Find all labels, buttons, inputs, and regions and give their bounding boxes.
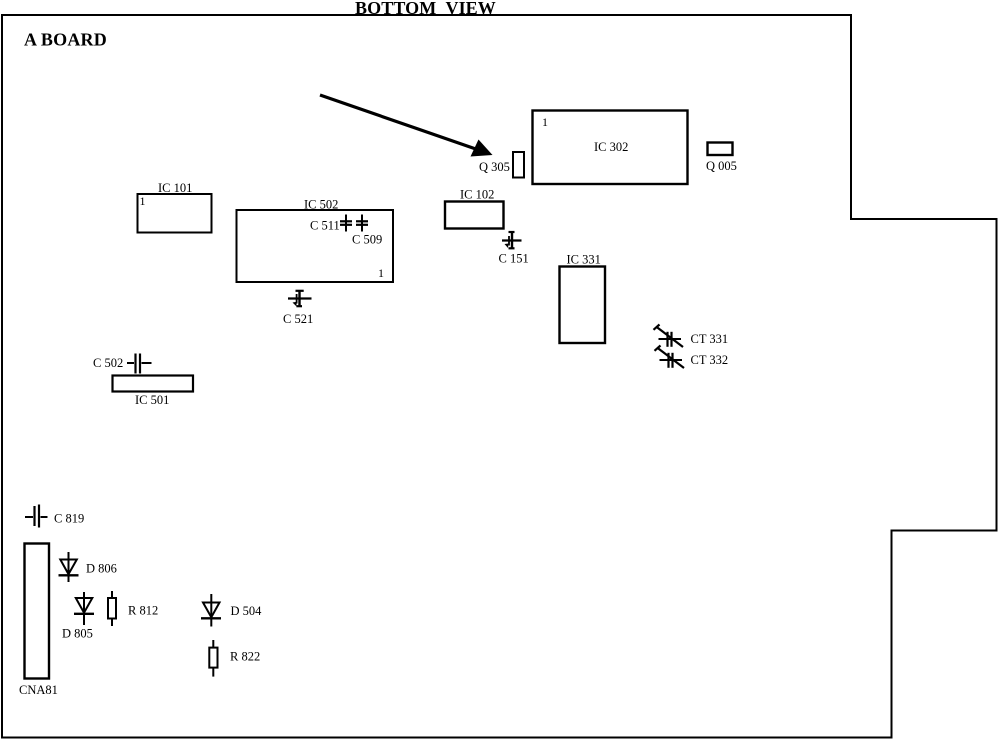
svg-text:C 509: C 509 bbox=[352, 233, 382, 247]
svg-text:IC 331: IC 331 bbox=[567, 253, 601, 267]
svg-text:C 511: C 511 bbox=[310, 219, 340, 233]
IC 501 bbox=[113, 376, 194, 408]
svg-text:R 822: R 822 bbox=[230, 650, 260, 664]
svg-text:IC 101: IC 101 bbox=[158, 181, 192, 195]
svg-text:IC 102: IC 102 bbox=[460, 188, 494, 202]
capacitor C 151 bbox=[499, 232, 529, 266]
trimmer capacitor CT 331 bbox=[654, 325, 729, 348]
svg-text:C 819: C 819 bbox=[54, 512, 84, 526]
svg-text:CNA81: CNA81 bbox=[19, 683, 58, 697]
svg-text:C 521: C 521 bbox=[283, 312, 313, 326]
capacitor C 521 bbox=[283, 291, 313, 327]
svg-text:CT 332: CT 332 bbox=[691, 353, 729, 367]
IC 331 bbox=[560, 253, 606, 344]
arrow pointing to Q 305 bbox=[320, 95, 493, 157]
svg-text:D 806: D 806 bbox=[86, 562, 117, 576]
svg-text:C 502: C 502 bbox=[93, 356, 123, 370]
IC 102 bbox=[445, 188, 504, 229]
svg-text:1: 1 bbox=[542, 115, 548, 129]
trimmer capacitor CT 332 bbox=[655, 346, 729, 369]
IC 502 bbox=[237, 198, 394, 283]
svg-text:C 151: C 151 bbox=[499, 252, 529, 266]
connector CNA81 bbox=[19, 544, 58, 698]
capacitor C 502 bbox=[93, 354, 152, 374]
svg-text:R 812: R 812 bbox=[128, 604, 158, 618]
diode D 806 bbox=[59, 552, 117, 582]
capacitor C 509 bbox=[352, 215, 382, 247]
svg-text:D 805: D 805 bbox=[62, 627, 93, 641]
svg-text:1: 1 bbox=[140, 194, 146, 208]
transistor Q 305 bbox=[479, 152, 524, 178]
title BOTTOM VIEW bbox=[355, 0, 496, 18]
resistor R 812 bbox=[108, 591, 158, 626]
svg-text:1: 1 bbox=[378, 266, 384, 280]
svg-text:Q 305: Q 305 bbox=[479, 160, 510, 174]
capacitor C 819 bbox=[25, 505, 84, 528]
diode D 805 bbox=[62, 592, 94, 641]
resistor R 822 bbox=[209, 640, 260, 677]
svg-text:A BOARD: A BOARD bbox=[24, 30, 107, 50]
capacitor C 511 bbox=[310, 215, 352, 233]
svg-text:D 504: D 504 bbox=[231, 604, 263, 618]
svg-text:CT 331: CT 331 bbox=[691, 332, 729, 346]
svg-text:IC 302: IC 302 bbox=[594, 140, 628, 154]
label A BOARD bbox=[24, 30, 107, 50]
IC 101 bbox=[138, 181, 212, 233]
svg-text:Q 005: Q 005 bbox=[706, 159, 737, 173]
diode D 504 bbox=[201, 594, 262, 627]
IC 302 bbox=[533, 111, 688, 185]
svg-text:IC 501: IC 501 bbox=[135, 393, 169, 407]
transistor Q 005 bbox=[706, 143, 737, 174]
